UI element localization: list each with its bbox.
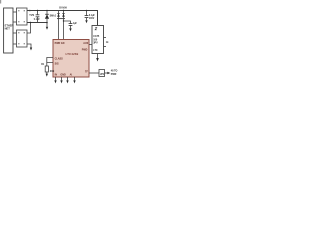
U1 bottom pin 4 with -48V arrow bbox=[73, 77, 75, 83]
module DC/DC converter bbox=[92, 26, 104, 54]
net arrow -48V at RCLASS bbox=[46, 74, 48, 77]
wire branch to C2 bbox=[64, 21, 71, 24]
svg-text:30Ω: 30Ω bbox=[50, 71, 55, 73]
svg-text:JP1: JP1 bbox=[100, 73, 105, 76]
jumper JP1 bbox=[99, 70, 105, 77]
svg-text:LTC: LTC bbox=[93, 49, 98, 52]
svg-text:R1: R1 bbox=[41, 64, 45, 66]
node bridge1 out bbox=[29, 10, 31, 12]
wire J1 to BR2 pin B bbox=[13, 43, 17, 45]
capacitor C2 bbox=[69, 23, 78, 32]
svg-text:0.1µF: 0.1µF bbox=[34, 19, 41, 21]
svg-text:NET: NET bbox=[5, 27, 11, 31]
svg-text:PWR GD: PWR GD bbox=[55, 42, 65, 45]
svg-text:48 TO: 48 TO bbox=[111, 69, 118, 72]
wire module out 2 bbox=[104, 46, 107, 48]
svg-text:CLASS: CLASS bbox=[55, 57, 64, 60]
node branch bbox=[63, 20, 64, 21]
U1 bottom pin 1 with -48V arrow bbox=[54, 77, 56, 83]
wire VPORTP rail bbox=[27, 11, 98, 26]
wire J1 to BR1 pin A bbox=[13, 11, 17, 13]
wire BR2 bottom pin down bbox=[27, 44, 31, 48]
net arrow -48V at D3 bbox=[46, 27, 48, 30]
net arrow -48V at BR2 bbox=[30, 48, 32, 51]
resistor RCLASS bbox=[45, 66, 54, 77]
wire VPORTN rail bbox=[27, 22, 47, 24]
net arrow -48V at C3 bbox=[85, 20, 87, 23]
wire U1 PWRGD to module bbox=[89, 44, 92, 46]
svg-text:SMAJ: SMAJ bbox=[50, 14, 57, 17]
svg-text:IN: IN bbox=[55, 73, 58, 76]
corner mark bbox=[0, 0, 1, 4]
wire J1 to BR1 pin B bbox=[13, 21, 17, 23]
wire module out 1 bbox=[104, 37, 107, 39]
wire U1 to JP1 bbox=[89, 72, 99, 74]
diode bridge BR1 bbox=[17, 8, 28, 25]
svg-text:100V: 100V bbox=[89, 18, 95, 20]
diode bridge BR2 bbox=[17, 30, 28, 47]
svg-text:TVS: TVS bbox=[29, 14, 34, 17]
wire JP1 to load with arrow bbox=[105, 72, 108, 74]
IC U1 LTC4257 bbox=[53, 40, 89, 78]
svg-text:1µF: 1µF bbox=[73, 23, 78, 25]
dual diode D2 and wires to U1 top pins bbox=[57, 10, 65, 40]
svg-text:BAV99: BAV99 bbox=[59, 7, 67, 10]
U1 bottom pin 2 with -48V arrow bbox=[60, 77, 62, 83]
svg-text:PWD: PWD bbox=[82, 48, 88, 51]
svg-text:SIG: SIG bbox=[55, 62, 59, 65]
wire U1 left pins to RCLASS bbox=[47, 58, 53, 63]
svg-text:1k: 1k bbox=[106, 42, 109, 44]
svg-text:LTC4269: LTC4269 bbox=[66, 52, 79, 56]
capacitor C1 bbox=[36, 10, 40, 23]
TVS diode D3 SMAJ58A bbox=[45, 10, 57, 30]
U1 bottom pin 3 with -48V arrow bbox=[66, 77, 68, 83]
svg-text:AUX: AUX bbox=[83, 42, 88, 45]
svg-text:AI: AI bbox=[70, 73, 73, 76]
svg-text:3PV: 3PV bbox=[93, 42, 98, 45]
svg-text:PWR: PWR bbox=[111, 73, 117, 76]
node BR2-VPORTN bbox=[30, 22, 31, 23]
svg-text:GND: GND bbox=[60, 73, 66, 76]
wire BR2 top pin to VPORTN rail bbox=[27, 23, 31, 34]
net arrow -48V at C2 bbox=[69, 28, 71, 31]
connector J1 ethernet jack bbox=[4, 8, 13, 53]
svg-text:0.1µF: 0.1µF bbox=[89, 15, 96, 17]
wire J1 to BR2 pin A bbox=[13, 32, 17, 34]
module bottom stub with -48V arrow bbox=[96, 54, 99, 62]
capacitor C3 bbox=[85, 10, 96, 24]
